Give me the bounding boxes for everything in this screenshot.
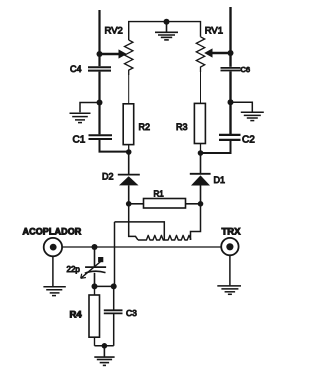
wire left rail bottom segment to R2 node	[100, 140, 129, 152]
wire main line ACOPLADOR to TRX	[62, 246, 221, 248]
wire top link between potentiometers	[129, 22, 201, 40]
svg-text:RV1: RV1	[205, 26, 223, 37]
node 22p top	[92, 244, 98, 250]
node C3 top junction	[111, 283, 117, 289]
ground under ACOPLADOR	[43, 256, 65, 295]
resistor R1	[129, 189, 201, 208]
diode D1	[190, 174, 225, 186]
diode D2	[102, 171, 140, 185]
svg-text:C1: C1	[73, 135, 86, 146]
svg-text:R4: R4	[70, 309, 83, 320]
svg-text:TRX: TRX	[222, 226, 242, 237]
resistor R3	[176, 103, 205, 153]
wire D2 to R1 node	[128, 185, 130, 203]
node R2 bottom	[126, 149, 132, 155]
node RV2 wiper on left rail	[97, 51, 103, 57]
resistor R2	[123, 104, 150, 152]
node bottom ground junction	[102, 343, 108, 349]
svg-text:R1: R1	[154, 189, 165, 198]
svg-text:C4: C4	[70, 64, 82, 74]
ground bottom	[94, 346, 114, 366]
node left ground tap	[97, 100, 103, 106]
inductor L1	[138, 235, 191, 240]
node R1 left	[126, 201, 132, 207]
node 22p bottom	[92, 283, 98, 289]
capacitor 22p trimmer	[67, 247, 107, 286]
connector ACOPLADOR	[23, 226, 82, 256]
node right ground tap	[228, 99, 234, 105]
capacitor C4	[70, 64, 111, 74]
wire 22p bottom to C3 column	[95, 285, 114, 287]
svg-text:RV2: RV2	[105, 26, 123, 37]
potentiometer RV1	[196, 26, 230, 104]
potentiometer RV2	[100, 26, 133, 104]
wire R1 right node down to coil	[191, 204, 201, 240]
capacitor C6	[221, 65, 251, 74]
wire right rail middle segment	[229, 72, 231, 135]
svg-text:R2: R2	[139, 122, 151, 132]
wire D1 branch	[200, 153, 202, 174]
wire D2 branch	[128, 152, 130, 175]
svg-text:D2: D2	[102, 171, 114, 181]
ground under TRX	[217, 255, 241, 294]
wire R1 left node down to coil	[129, 204, 138, 240]
svg-text:C2: C2	[242, 135, 255, 146]
wire right rail bottom segment to R3 node	[201, 141, 231, 153]
svg-text:R3: R3	[176, 122, 188, 132]
wire right rail top segment	[229, 7, 231, 67]
svg-text:ACOPLADOR: ACOPLADOR	[23, 226, 82, 236]
node R1 right	[198, 201, 204, 207]
connector TRX	[221, 226, 241, 255]
node top ground junction	[164, 19, 170, 25]
wire left rail middle segment	[98, 72, 100, 135]
svg-text:C6: C6	[241, 65, 251, 74]
wire left rail top segment	[98, 10, 100, 66]
wire D1 to R1 node	[200, 186, 202, 204]
wire tap column down through crossing to C3 junction	[114, 222, 116, 287]
capacitor C2	[219, 135, 255, 146]
wire inductor tap up and left	[115, 222, 165, 240]
ground right	[231, 102, 264, 120]
resistor R4	[70, 286, 100, 345]
node R3 bottom	[198, 150, 204, 156]
wire R4/C3 bottom join	[95, 345, 114, 347]
svg-text:C3: C3	[126, 308, 137, 318]
capacitor C3	[104, 286, 137, 345]
capacitor C1	[73, 135, 113, 146]
ground top center	[155, 22, 178, 40]
svg-text:22p: 22p	[67, 265, 81, 274]
ground left	[70, 103, 100, 123]
svg-text:D1: D1	[214, 175, 226, 185]
node RV1 wiper on right rail	[228, 50, 234, 56]
